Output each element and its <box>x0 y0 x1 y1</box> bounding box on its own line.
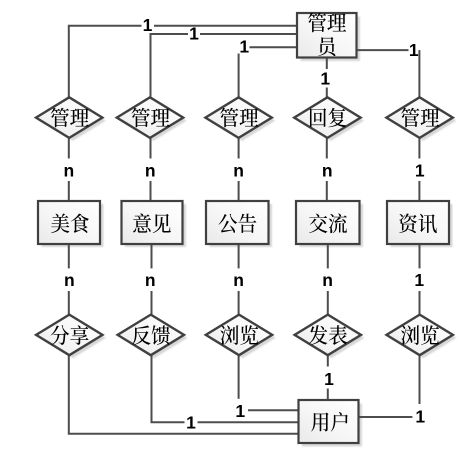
wire col4 bottom: 发表 to user <box>327 355 329 366</box>
svg-text:1: 1 <box>143 15 153 35</box>
wire col4: entity to bottom diamond <box>327 244 329 268</box>
wire col2: entity to bottom diamond <box>151 244 153 268</box>
wire col1 bottom: 分享 to user (corner y=433.8) <box>69 355 299 434</box>
svg-text:1: 1 <box>414 270 424 290</box>
relationship 管理 (top row) <box>205 97 271 138</box>
text 资讯 (entity) <box>399 213 417 233</box>
text 发表 (bottom diamond) <box>309 325 327 345</box>
relationship 浏览 (bottom row) <box>387 315 453 356</box>
text 美食 (entity) <box>51 214 69 234</box>
svg-text:n: n <box>145 161 156 181</box>
entity 意见 <box>122 201 183 244</box>
wire col1: top diamond to entity <box>68 137 70 158</box>
wire col2: top diamond to entity <box>150 137 152 158</box>
text 管理 (top diamond) <box>220 108 238 128</box>
svg-text:1: 1 <box>409 40 419 60</box>
relationship 回复 (top row) <box>294 97 360 138</box>
wire col5 top: admin right to 管理 <box>357 49 409 51</box>
text 管理 (top diamond) <box>51 108 69 128</box>
text 管理 (top diamond) <box>401 108 419 128</box>
svg-text:n: n <box>64 270 75 290</box>
text 管理员 in admin entity <box>308 13 326 33</box>
svg-text:1: 1 <box>320 68 330 88</box>
relationship 浏览 (bottom row) <box>206 315 272 356</box>
wire col5: top diamond to entity <box>418 137 420 158</box>
relationship 管理 (top row) <box>117 97 183 138</box>
svg-text:1: 1 <box>189 24 199 44</box>
text 交流 (entity) <box>309 214 327 233</box>
wire col5 bottom: 浏览 to user right (y=417) <box>419 355 421 404</box>
text 浏览 (bottom diamond) <box>401 325 419 345</box>
wire col3 top: corner to admin (line C, y=47.3) <box>250 46 298 48</box>
wire col1: entity to bottom diamond <box>68 244 70 268</box>
svg-text:n: n <box>233 270 244 290</box>
svg-text:n: n <box>322 161 333 181</box>
wire col2 bottom: 反馈 to user (corner y=422.3) <box>152 355 185 422</box>
svg-text:n: n <box>145 270 156 290</box>
relationship 管理 (top row) <box>36 97 102 138</box>
entity 交流 <box>296 201 360 244</box>
text 公告 (entity) <box>219 214 238 233</box>
text 回复 (top diamond) <box>310 108 326 127</box>
relationship 分享 (bottom row) <box>36 315 102 356</box>
svg-text:1: 1 <box>186 412 196 432</box>
entity 公告 <box>206 201 269 244</box>
wire col5: entity to bottom diamond <box>419 244 421 268</box>
wire col4: top diamond to entity <box>326 137 328 158</box>
text 分享 (bottom diamond) <box>51 325 70 345</box>
svg-text:1: 1 <box>235 401 245 421</box>
svg-text:1: 1 <box>239 37 249 57</box>
svg-text:1: 1 <box>324 369 334 389</box>
text 反馈 (bottom diamond) <box>132 325 150 344</box>
svg-text:n: n <box>233 161 244 181</box>
relationship 发表 (bottom row) <box>295 315 361 356</box>
relationship 反馈 (bottom row) <box>118 315 184 356</box>
relationship 管理 (top row) <box>386 97 452 138</box>
svg-text:1: 1 <box>415 161 425 181</box>
text 意见 (entity) <box>133 213 151 232</box>
entity 用户 (user) <box>299 400 359 443</box>
svg-text:n: n <box>64 161 75 181</box>
wire col1 top: corner to admin (line A, y=25.8) <box>154 25 297 27</box>
entity 美食 <box>38 201 100 244</box>
wire col3: entity to bottom diamond <box>238 244 240 268</box>
wire col2 top: corner to admin (line B, y=34) <box>200 33 297 35</box>
svg-text:1: 1 <box>415 406 425 426</box>
wire col4 top: admin bottom to 回复 <box>326 58 328 70</box>
entity 管理员 (admin) <box>297 13 357 58</box>
wire col3 bottom: 浏览 to user (y=409.8) <box>238 355 240 399</box>
text 用户 in user entity <box>311 413 328 432</box>
wire col3: top diamond to entity <box>238 137 240 158</box>
entity 资讯 <box>387 201 449 244</box>
text 浏览 (bottom diamond) <box>220 325 238 345</box>
text 管理 (top diamond) <box>132 108 150 128</box>
svg-text:n: n <box>322 270 333 290</box>
